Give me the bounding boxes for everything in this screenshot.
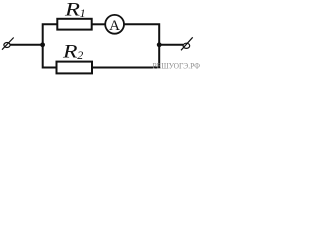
node junction left [40,42,45,47]
resistor R1 [57,19,91,30]
wire R1 to ammeter [92,23,106,25]
wire left down to R2 [43,45,57,68]
wire left main [10,44,44,46]
ammeter U1 circle [105,15,124,34]
svg-text:R: R [62,42,78,63]
svg-text:РЕШУОГЭ.РФ: РЕШУОГЭ.РФ [153,60,201,70]
wire left up to R1 [43,24,58,45]
right terminal clamp [181,37,193,50]
svg-text:1: 1 [80,6,86,20]
wire ammeter to right corner [124,24,159,45]
svg-text:R: R [64,0,81,21]
wire junction to right terminal [159,44,183,46]
resistor R2 [57,62,93,74]
left terminal clamp [2,38,14,50]
svg-text:2: 2 [77,48,83,62]
wire right down to R2 [93,45,160,68]
node junction right [157,42,162,47]
svg-text:A: A [109,18,120,34]
